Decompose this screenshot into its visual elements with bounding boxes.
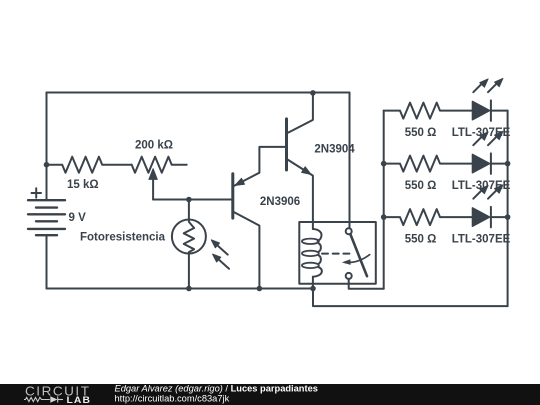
transistor Q1 2N3906 base bar bbox=[231, 174, 234, 218]
svg-text:550 Ω: 550 Ω bbox=[405, 233, 437, 245]
relay swing arrow bbox=[345, 255, 370, 263]
transistor Q2 2N3904 base bar bbox=[285, 119, 288, 170]
potentiometer R2 200k body bbox=[132, 157, 187, 173]
wire wiper to Q1 base bbox=[153, 199, 233, 201]
svg-text:200 kΩ: 200 kΩ bbox=[135, 139, 173, 151]
wire battery positive vertical bbox=[46, 93, 48, 201]
relay coil right humps bbox=[313, 229, 322, 241]
photoresistor light arrow 1 bbox=[215, 243, 228, 255]
svg-text:Edgar Alvarez (edgar.rigo) / L: Edgar Alvarez (edgar.rigo) / Luces parpa… bbox=[115, 384, 318, 394]
relay terminal bottom bbox=[346, 273, 352, 279]
resistor R1 15k bbox=[47, 157, 132, 173]
photoresistor light arrow 2 bbox=[216, 257, 229, 269]
relay coil loop 2 bbox=[302, 251, 319, 256]
LED D3 row3 bbox=[473, 208, 490, 226]
relay coil bottom wire bbox=[312, 277, 314, 289]
LED D1 light arrows bbox=[473, 82, 483, 92]
wire photoresistor bottom lead bbox=[188, 254, 190, 289]
relay switch arm bbox=[351, 235, 368, 277]
svg-text:550 Ω: 550 Ω bbox=[405, 127, 437, 139]
svg-text:550 Ω: 550 Ω bbox=[405, 180, 437, 192]
relay coil loop 3 bbox=[302, 263, 319, 268]
footer logo mini circuit bbox=[24, 396, 63, 402]
wire LED cathode bus vertical bbox=[507, 111, 509, 307]
svg-text:Fotoresistencia: Fotoresistencia bbox=[80, 232, 166, 244]
node junction photoresistor bottom bbox=[186, 286, 192, 292]
wire top rail to relay switch bbox=[349, 93, 351, 229]
svg-text:2N3906: 2N3906 bbox=[260, 196, 300, 208]
transistor Q2 collector bbox=[287, 93, 313, 134]
resistor R3 550 row1 bbox=[384, 103, 473, 119]
svg-text:LTL-307EE: LTL-307EE bbox=[452, 233, 511, 245]
wire battery negative vertical bbox=[46, 235, 48, 288]
svg-text:15 kΩ: 15 kΩ bbox=[67, 179, 99, 191]
LED D3 light arrows bbox=[473, 189, 483, 199]
transistor Q2 emitter with arrow bbox=[287, 159, 313, 229]
wire top rail +9V bbox=[47, 92, 350, 94]
node junction anode bus row2 bbox=[381, 161, 387, 167]
node junction Q2 collector top rail bbox=[310, 90, 316, 96]
LED D2 row2 bbox=[473, 155, 490, 173]
svg-text:LTL-307EE: LTL-307EE bbox=[452, 127, 511, 139]
footer bar bbox=[0, 384, 540, 405]
relay RLY1 box bbox=[299, 222, 376, 284]
wire photoresistor top lead bbox=[188, 200, 190, 220]
svg-text:LTL-307EE: LTL-307EE bbox=[452, 180, 511, 192]
potentiometer wiper arrow bbox=[152, 178, 154, 200]
node junction 15k tap bbox=[44, 162, 50, 168]
photoresistor body circle bbox=[172, 220, 206, 254]
relay terminal top bbox=[346, 228, 352, 234]
relay dashed actuator link bbox=[322, 253, 352, 255]
resistor R5 550 row3 bbox=[384, 209, 473, 225]
svg-text:http://circuitlab.com/c83a7jk: http://circuitlab.com/c83a7jk bbox=[115, 394, 230, 404]
node junction cathode bus row2 bbox=[505, 161, 511, 167]
svg-text:LAB: LAB bbox=[67, 395, 92, 405]
node junction Q1 collector ground bbox=[257, 286, 263, 292]
svg-text:2N3904: 2N3904 bbox=[314, 144, 355, 156]
node junction anode bus row3 bbox=[381, 214, 387, 220]
svg-text:9 V: 9 V bbox=[69, 212, 87, 224]
LED D2 light arrows bbox=[473, 135, 483, 145]
photoresistor internal zigzag bbox=[184, 220, 194, 254]
wire ground dot to LED cathode bus bbox=[313, 289, 508, 307]
node junction cathode bus row3 bbox=[505, 214, 511, 220]
wire ground rail bottom bbox=[47, 288, 314, 290]
transistor Q1 collector bbox=[233, 212, 260, 289]
transistor Q1 emitter with arrow bbox=[233, 147, 287, 187]
relay coil loop 1 bbox=[302, 239, 319, 244]
node junction relay coil ground bbox=[310, 286, 316, 292]
battery plus sign bbox=[32, 188, 42, 197]
battery V1 plates bbox=[28, 200, 65, 235]
wire LED anode bus vertical bbox=[383, 111, 385, 289]
wire switch bottom to LED anode bus bbox=[349, 279, 384, 289]
resistor R4 550 row2 bbox=[384, 156, 473, 172]
node junction wiper photoresistor bbox=[186, 197, 192, 203]
LED D1 row1 bbox=[473, 102, 490, 120]
